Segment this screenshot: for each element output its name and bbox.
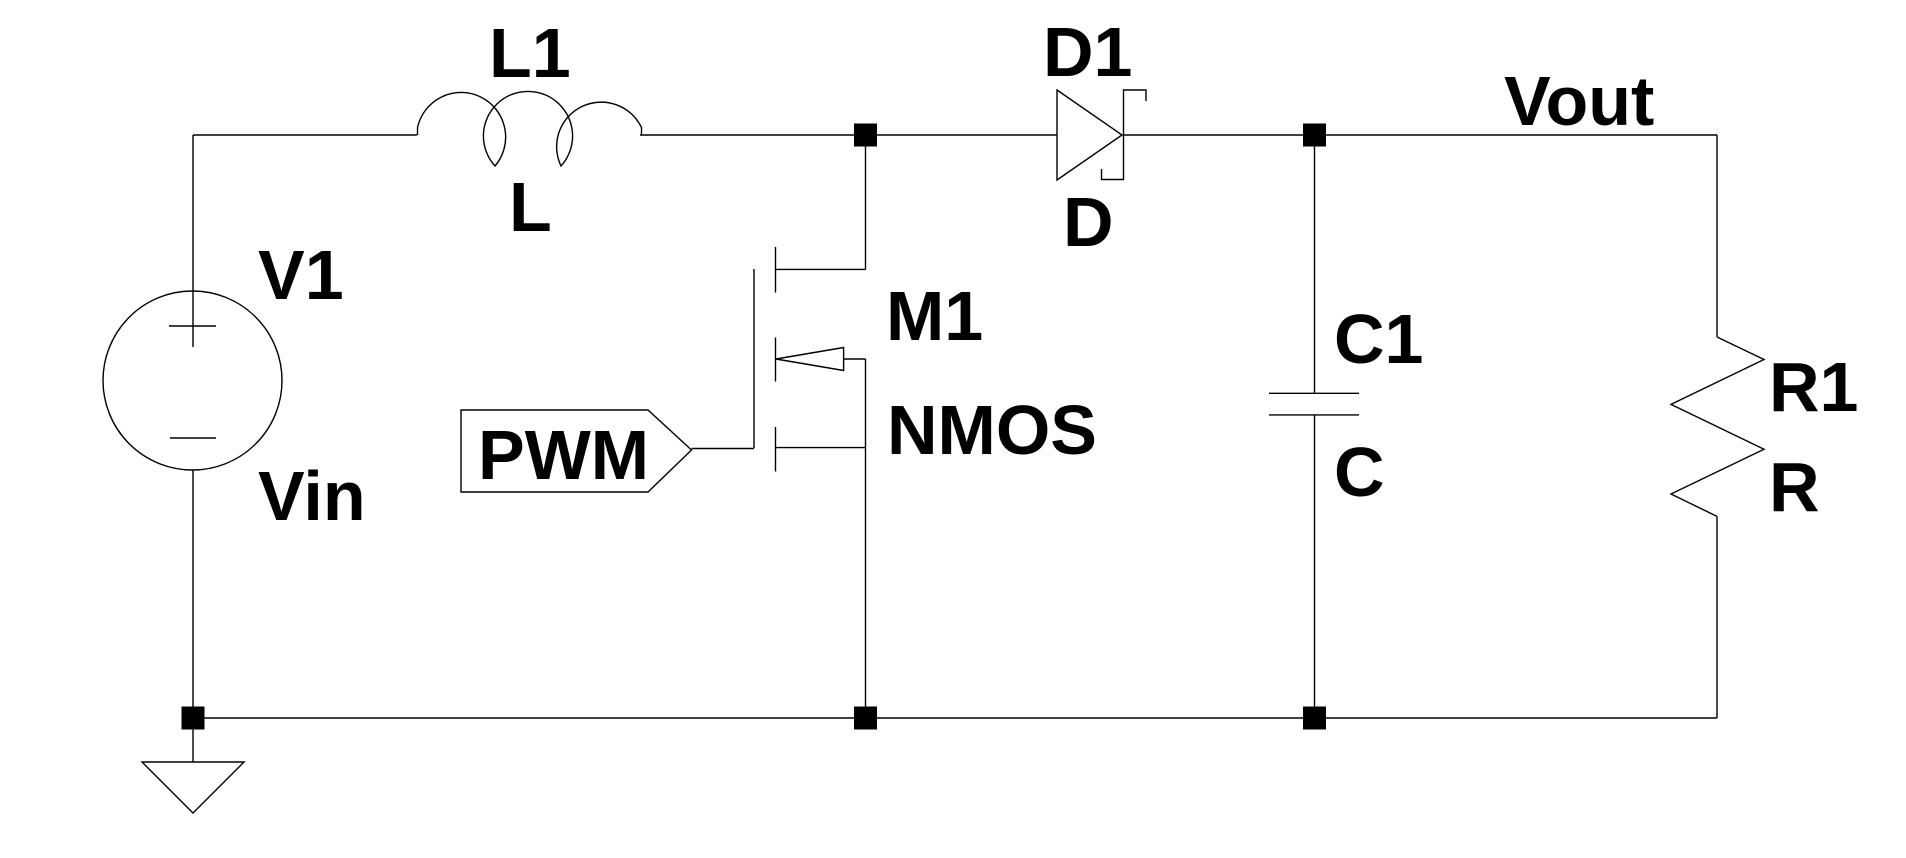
- svg-text:L1: L1: [489, 14, 571, 92]
- svg-text:L: L: [509, 168, 552, 246]
- svg-text:R1: R1: [1769, 348, 1858, 426]
- svg-text:D1: D1: [1043, 13, 1132, 91]
- svg-text:C: C: [1334, 433, 1385, 511]
- svg-text:R: R: [1769, 448, 1820, 526]
- svg-text:Vout: Vout: [1504, 62, 1654, 140]
- svg-text:Vin: Vin: [258, 457, 366, 535]
- svg-text:C1: C1: [1334, 300, 1423, 378]
- svg-text:M1: M1: [886, 277, 983, 355]
- svg-text:PWM: PWM: [478, 416, 649, 494]
- svg-text:NMOS: NMOS: [887, 391, 1097, 469]
- svg-text:V1: V1: [258, 236, 344, 314]
- svg-text:D: D: [1063, 183, 1114, 261]
